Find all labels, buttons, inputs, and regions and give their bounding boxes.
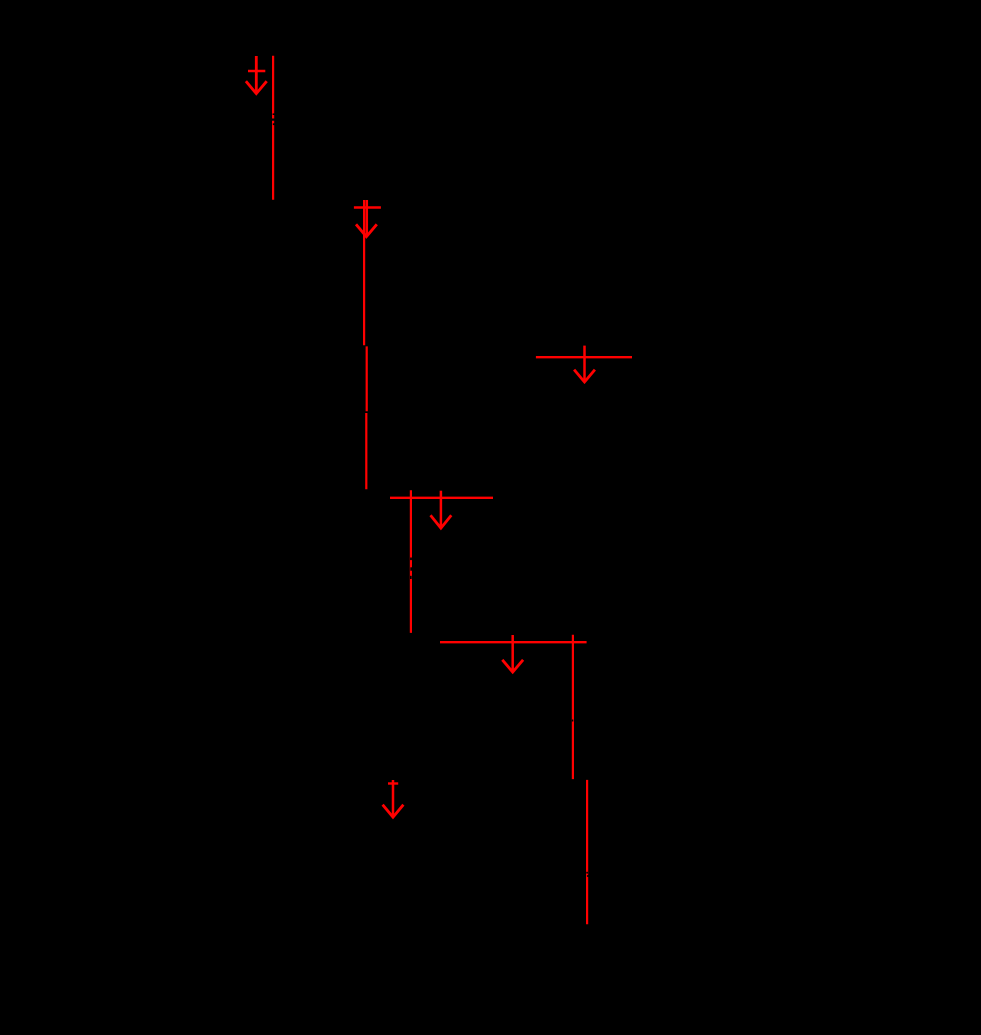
wire V3	[410, 490, 412, 633]
current arrow I5	[502, 635, 523, 672]
wire V2b	[366, 346, 368, 411]
wire V5	[586, 780, 588, 924]
ink notch on wire V1	[272, 113, 275, 125]
wire H3	[440, 641, 587, 643]
ink notch on wire V5	[586, 872, 588, 877]
current arrow I2	[354, 200, 381, 237]
current arrow I1	[246, 56, 267, 94]
wire V2c	[365, 413, 367, 489]
ink notch on wire V3	[410, 558, 412, 580]
wire H1	[536, 356, 632, 358]
current arrow I3	[574, 346, 595, 382]
wire H2	[390, 497, 493, 499]
ink notch on wire V4	[572, 720, 573, 722]
wire V2a	[363, 200, 365, 345]
current arrow I6	[383, 780, 404, 817]
wire V1	[272, 56, 274, 200]
wire V4	[572, 635, 574, 779]
current arrow I4	[431, 491, 452, 528]
